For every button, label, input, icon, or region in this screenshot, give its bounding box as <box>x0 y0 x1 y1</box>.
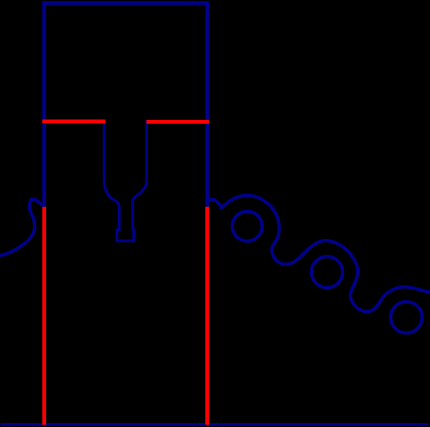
tank top wall <box>42 1 209 5</box>
tank left wall <box>42 1 46 206</box>
bottom blue floor line <box>1 423 429 426</box>
left curl wave <box>0 199 44 256</box>
tank bottom red line left segment <box>42 120 105 124</box>
bottle/funnel outline <box>104 120 146 241</box>
tank bottom red line right segment <box>147 120 210 124</box>
red right vertical wall <box>205 207 209 425</box>
eddy circle 1 <box>232 211 262 241</box>
red left vertical wall <box>42 207 46 425</box>
eddy circle 3 <box>391 302 422 333</box>
tank right wall <box>205 1 209 206</box>
right wave with curls <box>207 195 430 311</box>
eddy circle 2 <box>311 257 342 288</box>
